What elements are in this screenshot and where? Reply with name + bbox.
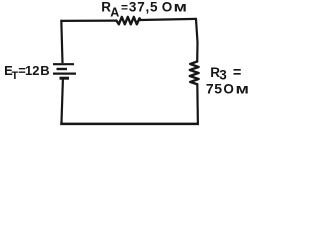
svg-text:м: м	[236, 82, 249, 97]
wire: left vertical segment from battery ET down to bottom-left corner	[61, 80, 63, 125]
wire: right vertical segment from resistor R3 down to bottom-right corner	[196, 84, 199, 125]
wire: right vertical segment from top-right corner down to resistor R3	[196, 18, 198, 62]
wire: left vertical segment from top-left corner down to battery ET	[61, 20, 62, 63]
svg-text:75О: 75О	[206, 81, 234, 97]
battery ET plate 3 (long)	[53, 72, 76, 74]
battery ET plate 2 (short)	[57, 68, 68, 70]
resistor R3 zigzag element	[190, 62, 199, 85]
battery ET plate 4 (short thick)	[60, 77, 70, 80]
svg-text:ET=12В: ET=12В	[4, 63, 50, 82]
battery ET plate 1 (long)	[53, 63, 74, 65]
wire: top-right segment from resistor RA to right corner	[141, 19, 197, 20]
wire: bottom segment	[60, 123, 199, 126]
resistor RA zigzag element	[117, 17, 141, 24]
svg-text:RA=37,5О: RA=37,5О	[101, 0, 172, 19]
wire: top-left segment from left corner to resistor RA	[61, 20, 117, 22]
svg-text:м: м	[174, 0, 187, 15]
